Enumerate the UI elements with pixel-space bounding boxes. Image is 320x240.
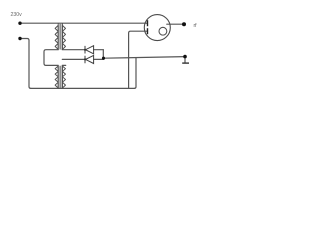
wire riser from bottom rail to tube pin 2 [129,31,148,88]
wire linking T1 left winding to T2 left winding [44,50,58,66]
node: diode junction [102,57,105,60]
wire T1 secondary to D1 [62,49,85,51]
diode D2 [85,55,94,63]
antenna loop [159,27,167,35]
wire RF output [167,23,184,25]
wire bottom rail [31,87,135,89]
node: D2 anode blob [84,58,86,60]
wire D2 out [94,58,104,60]
wire riser from bottom rail to HV return [134,58,136,89]
transformer T1 [55,23,65,50]
wire mains N terminal down to bottom rail [20,39,31,89]
node: neutral terminal [18,37,21,40]
tube cathode pin 1 bar [147,20,149,26]
wire T2 right winding stub [62,64,65,66]
wire D1 out [94,49,104,51]
node: D1 anode blob [84,49,86,51]
wire mains line L to tube pin 1 [20,22,147,24]
node: RF terminal [182,22,186,26]
wire ground stem [184,57,186,63]
magnetron tube U1 envelope [144,15,170,41]
diode D1 [85,46,94,54]
wire core column to D2 [62,58,85,60]
ground [182,62,189,64]
tube cathode pin 2 bar [147,28,149,34]
svg-text:rf: rf [194,23,198,29]
svg-text:230v: 230v [11,12,23,18]
wire HV return to ground node [104,57,186,59]
transformer T2 [55,65,65,88]
wire joining D1/D2 outputs [102,50,104,60]
node: ground junction [183,55,187,59]
node: line terminal [18,22,21,25]
